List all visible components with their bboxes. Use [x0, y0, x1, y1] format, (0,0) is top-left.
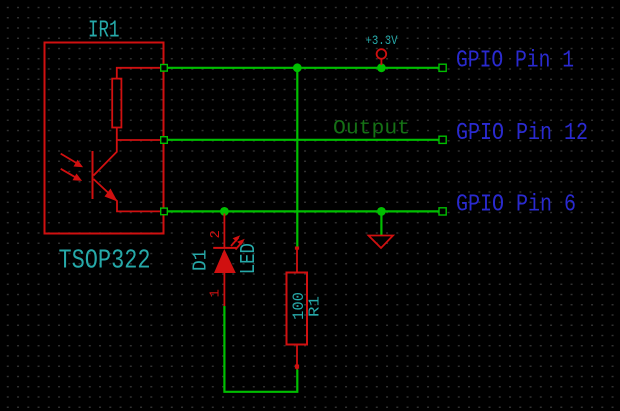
internal wire resistor bottom to pin 2 and collector	[117, 128, 161, 141]
LED emission arrow 2	[236, 241, 244, 250]
svg-text:LED: LED	[238, 243, 261, 274]
LED triangle	[214, 249, 236, 273]
LED D1 pin 1	[223, 273, 225, 306]
LED D1 pin 2	[223, 214, 225, 248]
pin end tick bottom	[295, 365, 299, 369]
pin square 3	[161, 208, 168, 215]
emitter arrowhead	[105, 189, 118, 202]
pin square 1	[161, 65, 168, 72]
pin end tick top	[295, 247, 299, 250]
global label terminal 6	[439, 208, 446, 215]
junction node ground	[377, 207, 386, 216]
transistor emitter	[94, 179, 162, 211]
svg-text:TSOP322: TSOP322	[59, 247, 151, 277]
ground symbol	[380, 211, 382, 235]
svg-text:2: 2	[208, 230, 224, 238]
wire LED bottom	[224, 306, 297, 392]
transistor base	[92, 151, 94, 199]
resistor R1 body	[287, 273, 308, 345]
svg-text:+3.3V: +3.3V	[366, 33, 398, 48]
global label terminal 12	[439, 136, 446, 143]
global label terminal 1	[439, 64, 446, 71]
LED emission arrow 1	[231, 238, 239, 247]
svg-text:Output: Output	[333, 118, 410, 141]
wire GPIO Pin 12 row	[167, 139, 439, 141]
internal resistor	[112, 79, 121, 128]
svg-text:GPIO Pin 12: GPIO Pin 12	[456, 120, 588, 147]
svg-text:GPIO Pin 6: GPIO Pin 6	[456, 192, 576, 219]
junction node wire1	[293, 63, 302, 72]
internal wire resistor top to pin 1	[117, 68, 161, 79]
light arrow 1	[61, 154, 79, 165]
transistor collector	[94, 140, 117, 176]
wire GPIO Pin 6 row	[167, 210, 439, 212]
svg-text:GPIO Pin 1: GPIO Pin 1	[456, 48, 574, 75]
light arrow 2	[61, 169, 77, 178]
svg-text:100: 100	[290, 292, 308, 320]
junction node power	[377, 63, 386, 72]
svg-text:IR1: IR1	[88, 18, 120, 45]
junction node LED top	[220, 207, 229, 216]
resistor R1 bottom pin	[296, 345, 298, 370]
pin square 2	[161, 137, 168, 144]
LED cathode bar	[213, 247, 236, 249]
resistor R1 top pin	[296, 247, 298, 273]
power +3.3V symbol	[377, 49, 387, 59]
svg-text:D1: D1	[190, 250, 212, 272]
IR receiver IR1 body	[45, 43, 164, 234]
svg-text:1: 1	[208, 289, 224, 297]
wire vertical main	[296, 68, 298, 247]
wire GPIO Pin 1 row	[167, 67, 439, 69]
svg-text:R1: R1	[306, 296, 323, 317]
